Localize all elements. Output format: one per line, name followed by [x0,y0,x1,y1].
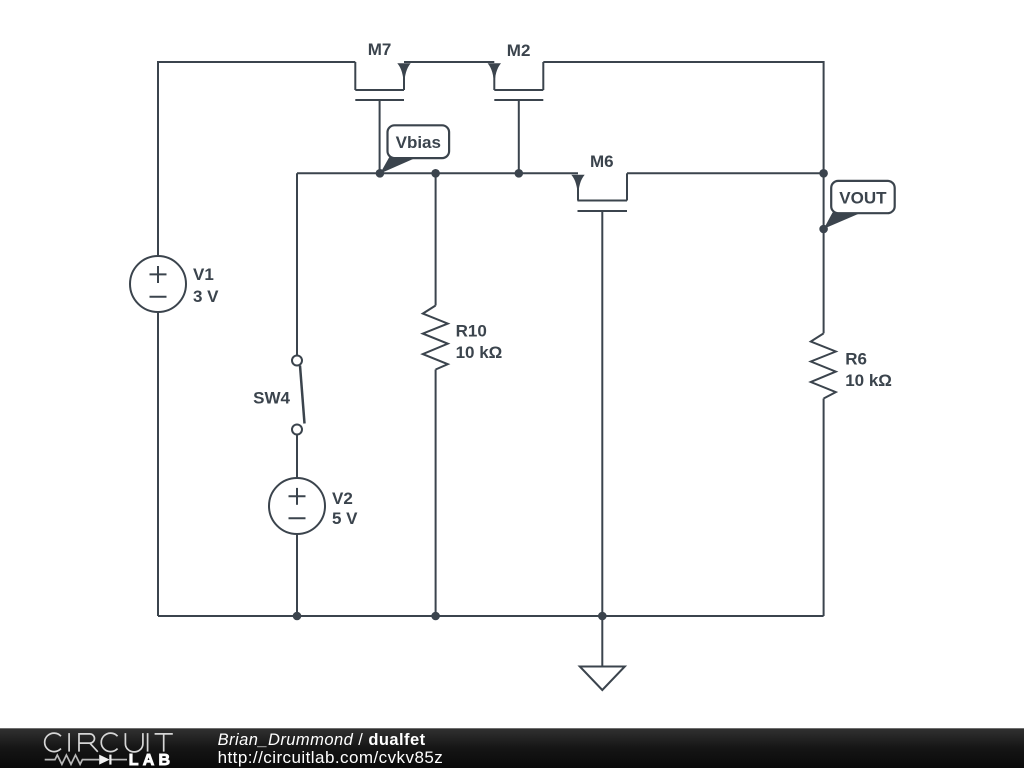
label R10 value 10 kOhm [456,322,503,362]
wire M6 source to VOUT rail [627,172,824,174]
transistor M6 [571,173,627,211]
node Vbias junction at M7 gate [376,169,385,178]
voltage source V1 [130,256,186,312]
svg-text:3 V: 3 V [193,287,219,306]
wire top rail M7 drain to M2 drain [404,61,494,63]
node junction M6 source and VOUT rail [819,169,828,178]
node junction Vbias net and M2 gate [515,169,524,178]
svg-text:Vbias: Vbias [396,133,441,152]
label R6 value 10 kOhm [845,350,892,391]
svg-text:M6: M6 [590,152,614,171]
svg-text:http://circuitlab.com/cvkv85z: http://circuitlab.com/cvkv85z [218,748,444,767]
svg-text:VOUT: VOUT [839,189,887,208]
CircuitLab logo wordmark CIRCUIT [45,733,173,752]
wire V1 minus to bottom rail [157,312,159,616]
wire V2 minus to bottom rail [296,534,298,616]
svg-text:LAB: LAB [129,752,174,768]
svg-text:5 V: 5 V [332,509,358,528]
transistor M2 [488,62,544,173]
wire M6 gate down to bottom rail [601,211,603,616]
wire R6 bottom to bottom rail [823,399,825,617]
node junction R10 and bottom rail [431,612,440,621]
logo diode icon [99,755,110,765]
node junction ground and bottom rail [598,612,607,621]
svg-text:10 kΩ: 10 kΩ [845,371,892,390]
svg-text:10 kΩ: 10 kΩ [456,343,503,362]
node Vbias flag [380,125,449,173]
svg-text:SW4: SW4 [253,389,290,408]
wire Vbias net down to switch SW4 [296,173,298,355]
node junction Vbias net and R10 [431,169,440,178]
node junction V2 and bottom rail [293,612,302,621]
svg-text:M2: M2 [507,41,531,60]
label V1 value 3 V [193,265,219,306]
svg-text:R6: R6 [845,350,867,369]
svg-text:Brian_Drummond / dualfet: Brian_Drummond / dualfet [218,731,426,749]
svg-text:V1: V1 [193,265,214,284]
wire bottom ground rail [158,615,824,617]
label V2 value 5 V [332,489,358,528]
wire R10 bottom to bottom rail [435,370,437,617]
node VOUT junction [819,225,828,234]
transistor M7 [355,62,410,173]
svg-text:V2: V2 [332,489,353,508]
voltage source V2 [269,478,325,534]
resistor R6 [811,333,836,398]
wire top rail M2 source to right corner down to R6 top [543,62,823,333]
node VOUT flag [824,181,895,229]
wire Vbias net down to R10 top [435,173,437,305]
svg-text:M7: M7 [368,40,392,59]
resistor R10 [423,306,448,370]
logo resistor zigzag icon [45,755,99,764]
wire SW4 to V2 plus [296,435,298,479]
wire top-left rail V1 plus to M7 source [158,62,355,256]
switch SW4 [292,356,305,435]
svg-text:R10: R10 [456,322,487,341]
ground [580,616,625,690]
wire Vbias horizontal net [297,172,578,174]
